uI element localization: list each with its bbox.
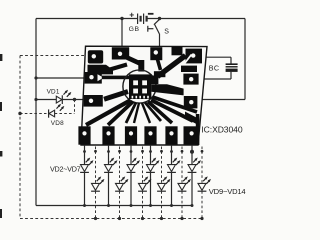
svg-text:VD9~VD14: VD9~VD14: [209, 187, 246, 196]
svg-text:VD8: VD8: [51, 120, 64, 127]
svg-text:GB: GB: [129, 26, 140, 33]
svg-text:IC:XD3040: IC:XD3040: [201, 124, 242, 134]
svg-text:VD2~VD7: VD2~VD7: [50, 164, 81, 173]
svg-text:+: +: [129, 9, 134, 19]
svg-text:BC: BC: [209, 64, 220, 73]
svg-text:S: S: [164, 29, 169, 36]
svg-text:VD1: VD1: [47, 88, 60, 95]
